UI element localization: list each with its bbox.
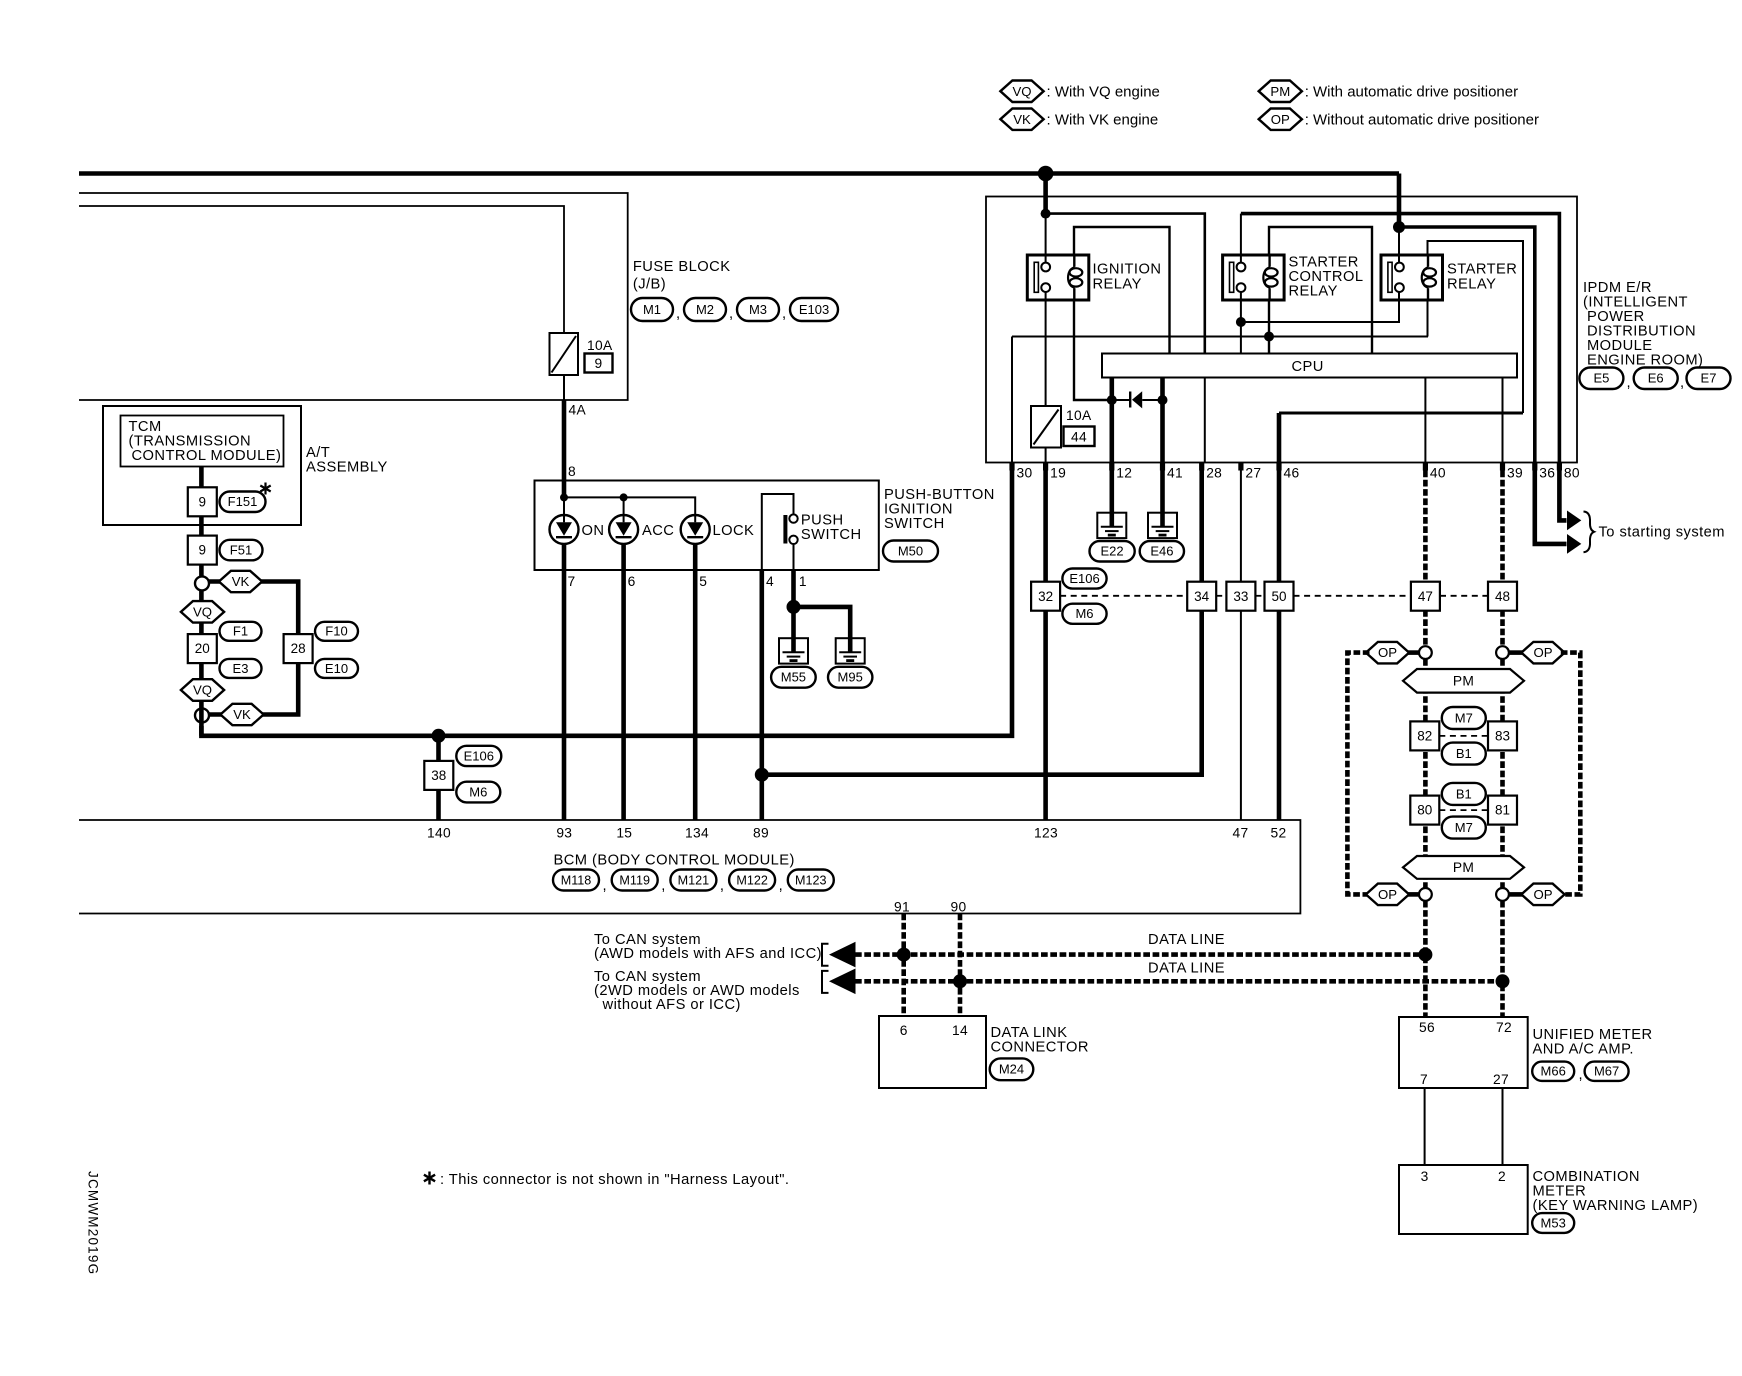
svg-text:83: 83 [1495,729,1510,744]
arrow to CAN system lower [829,969,856,995]
svg-text:81: 81 [1495,803,1510,818]
wire CPU to pin 28 (inside) [1204,378,1206,463]
svg-text:33: 33 [1233,589,1248,604]
arrow to starting system (pin 80) [1567,511,1581,531]
wire TCM main branch down [199,590,204,735]
starter relay [1381,255,1443,300]
svg-text:VK: VK [1013,112,1031,127]
dashed link 80-81 [1439,809,1488,811]
svg-text:VQ: VQ [193,683,212,698]
wire UM 27 to CM 2 [1502,1088,1504,1165]
wire pin 46 link [1279,412,1523,415]
pin 34 connector [1187,582,1216,611]
svg-text:ACC: ACC [642,523,674,539]
svg-text:50: 50 [1271,589,1286,604]
svg-text:To starting system: To starting system [1599,525,1725,541]
A/T assembly outer box [103,406,301,525]
svg-text:82: 82 [1417,729,1432,744]
svg-text:32: 32 [1038,589,1053,604]
junction ignition relay feed node [1041,209,1051,219]
CAN wire right mid [1500,659,1505,888]
connector M118 [553,870,599,891]
junction 90/lower data line [953,974,967,988]
connector M7 (row1) [1442,707,1486,729]
wire pin 46 to BCM 52 [1277,471,1282,821]
svg-text:,: , [729,306,734,322]
CAN wire to unified meter 72 [1500,901,1505,1017]
svg-text:VK: VK [233,707,251,722]
svg-text:M7: M7 [1455,820,1473,835]
svg-text:OP: OP [1378,887,1397,902]
connector M6 (left) [456,782,500,803]
IPDM pin 80 stub [1557,463,1562,471]
wire starter coil bottom [1427,300,1429,337]
stub node to OP bottom-left [1406,892,1419,897]
wire SC contact to starter contact [1241,292,1399,322]
svg-text:F1: F1 [233,624,248,639]
svg-text:M6: M6 [1075,606,1093,621]
svg-text:F51: F51 [230,542,252,557]
wire ON LED stub [563,497,565,515]
connector F1 [220,622,262,641]
CAN wire pin 39 down [1500,471,1505,647]
svg-text:1: 1 [799,574,807,589]
svg-text:E5: E5 [1593,371,1609,386]
wire ON LED to pin 7 [562,544,567,820]
connector F51 [220,540,263,561]
svg-text:41: 41 [1167,466,1183,481]
connector M121 [670,870,716,891]
dashed connector line 33-50 [1255,595,1264,597]
connector E106 (left) [456,746,501,766]
wire pin 1 to ground M55 [791,570,796,652]
svg-text:M1: M1 [643,302,661,317]
BCM box [79,820,1300,914]
connector M67 [1585,1062,1629,1081]
wire pin 30 line [1012,336,1428,338]
pin 20 connector [188,634,217,663]
connector M122 [729,870,775,891]
svg-text:,: , [782,306,787,322]
svg-text:40: 40 [1430,466,1446,481]
push-button ignition switch box M50 [535,481,879,571]
wire push switch to pin 1 [793,544,795,570]
svg-text:14: 14 [952,1023,968,1038]
svg-text:E6: E6 [1648,371,1664,386]
legend symbol OP [1259,109,1302,130]
CAN wire left mid [1423,659,1428,888]
svg-text:30: 30 [1017,466,1033,481]
svg-text:OP: OP [1271,112,1290,127]
junction diode left [1107,395,1117,405]
svg-text:,: , [1579,1067,1584,1083]
svg-text:M3: M3 [749,302,767,317]
svg-text:RELAY: RELAY [1093,277,1142,293]
indicator LED ACC [609,515,638,544]
data line lower [855,979,1503,984]
svg-text:ASSEMBLY: ASSEMBLY [306,460,388,476]
wire junction down to 38 [436,736,441,820]
node circle upper (VK split) [195,576,209,590]
svg-text:80: 80 [1417,803,1432,818]
svg-text:: Without automatic drive posi: : Without automatic drive positioner [1305,111,1539,128]
wire CPU to pin 41 [1160,378,1165,463]
option hexagon OP bottom-right [1521,884,1564,906]
svg-text:19: 19 [1050,466,1066,481]
IPDM pin 30 stub [1009,463,1014,471]
svg-text:,: , [720,878,725,894]
ground connector E46 [1140,541,1184,562]
stub node to OP bottom-right [1509,892,1525,897]
connector E106 (right) [1062,569,1106,589]
wire SC coil loop to CPU [1269,227,1372,354]
svg-text:,: , [661,878,666,894]
svg-text:VK: VK [232,574,250,589]
svg-text:M6: M6 [469,785,487,800]
fuse 10A no.44 [1031,406,1061,448]
note asterisk footnote [424,1172,435,1185]
connector M2 [684,298,726,321]
svg-text:,: , [1627,375,1632,391]
svg-text:28: 28 [1206,466,1222,481]
svg-text:F10: F10 [325,624,347,639]
connector E10 [315,659,358,678]
svg-text:without AFS or ICC): without AFS or ICC) [598,997,741,1013]
svg-text:M118: M118 [561,873,592,887]
svg-text:140: 140 [427,826,451,841]
PM banner top [1403,669,1524,693]
junction pin4 / IPDM28 branch [755,768,769,782]
svg-text:52: 52 [1271,826,1287,841]
pin 81 connector [1488,796,1517,825]
wire pin 12 to ground E22 [1110,471,1115,527]
svg-text:M95: M95 [838,670,863,685]
junction starter relay feed [1393,221,1405,233]
fuse 10A no.9 [550,333,579,375]
pin 50 connector [1265,582,1294,611]
svg-text:M7: M7 [1455,710,1473,725]
svg-text:: With VK engine: : With VK engine [1047,111,1159,128]
svg-text:9: 9 [199,494,207,509]
IPDM pin 12 stub [1109,463,1114,471]
svg-text:OP: OP [1378,645,1397,660]
svg-text:E10: E10 [325,661,348,676]
CAN OP loop right [1561,653,1581,895]
svg-text:: This connector is not shown: : This connector is not shown in "Harnes… [440,1172,789,1188]
svg-text:DATA LINE: DATA LINE [1148,961,1225,977]
dashed link 82-83 [1439,735,1488,737]
svg-text:OP: OP [1533,887,1552,902]
connector M7 (row2) [1442,817,1486,839]
combination meter box M53 [1399,1165,1528,1234]
svg-text:BCM (BODY CONTROL MODULE): BCM (BODY CONTROL MODULE) [554,853,795,869]
ground symbol M55 [779,638,808,663]
svg-text:(J/B): (J/B) [633,277,666,293]
wire node to CPU (pin28 top line) [1046,214,1205,354]
connector M66 [1532,1062,1574,1081]
svg-text:ON: ON [582,523,605,539]
wire ACC LED stub [623,497,625,515]
wire F151 to F51 [199,516,204,535]
fuse number box 44 [1064,427,1095,447]
wire pin 4 riser [762,494,794,570]
svg-text:M2: M2 [696,302,714,317]
svg-text:34: 34 [1194,589,1210,604]
arrow to CAN system upper [829,942,856,968]
IPDM pin 28 stub [1199,463,1204,471]
ignition relay [1027,255,1089,300]
svg-text:12: 12 [1116,466,1132,481]
ground connector M95 [828,667,872,688]
svg-text:3: 3 [1421,1169,1429,1184]
fuse number box 9 [585,354,613,373]
connector M53 [1532,1213,1574,1233]
wire fuse 44 to pin 19 [1045,448,1047,463]
svg-text:27: 27 [1493,1072,1509,1087]
arrow to starting system (pin 36) [1567,534,1581,554]
data link connector box M24 [879,1016,986,1088]
node circle CAN-R top [1496,646,1509,659]
junction CAN-R/lower data line [1496,974,1510,988]
junction ACC LED tap [620,493,628,501]
option hexagon VK upper [219,571,262,592]
dashed connector line 47-48 [1440,595,1488,597]
wire node to pin 36 [1399,227,1535,463]
svg-text:VQ: VQ [193,605,212,620]
wire pin 80 line [1241,214,1560,463]
connector M1 [631,298,673,321]
svg-text:36: 36 [1539,466,1555,481]
svg-text:PM: PM [1453,860,1474,875]
pin 47 connector [1411,582,1440,611]
legend symbol PM [1259,81,1302,103]
svg-text:10A: 10A [1066,408,1092,423]
legend symbol VK [1000,109,1043,130]
IPDM pin 39 stub [1500,463,1505,471]
pin 82 connector [1410,721,1439,750]
svg-text:(AWD models with AFS and ICC): (AWD models with AFS and ICC) [594,946,822,962]
svg-text:38: 38 [431,768,446,783]
wire ignition contact to fuse 44 [1045,292,1047,406]
wire LOCK LED to pin 5 [693,544,698,820]
svg-text:M121: M121 [678,873,710,887]
svg-text:M24: M24 [999,1062,1024,1077]
CAN OP loop left [1347,653,1369,895]
svg-text:F151: F151 [228,494,258,509]
svg-text:4: 4 [766,574,774,589]
indicator LED ON [550,515,579,544]
svg-text:M53: M53 [1541,1215,1566,1230]
connector M3 [737,298,779,321]
svg-text:134: 134 [685,826,709,841]
connector E7 [1687,368,1731,390]
IPDM pin 27 stub [1238,463,1243,471]
svg-text:CPU: CPU [1292,359,1324,375]
junction pin8 / ON LED [560,493,568,501]
junction ground split [787,600,801,614]
IPDM E/R box [986,197,1577,463]
CAN wire BCM 90 down [958,914,963,1017]
IPDM pin 46 stub [1276,463,1281,471]
dashed connector line 50-47 [1294,595,1411,597]
svg-text:M50: M50 [898,543,923,558]
svg-text:M66: M66 [1541,1064,1566,1079]
junction CAN-L/upper data line [1418,948,1432,962]
pin 9 of F51 [188,536,217,565]
wire VK branch right loop [209,582,298,715]
connector M24 [990,1058,1034,1080]
pin 80 connector (CAN) [1410,796,1439,825]
svg-text:B1: B1 [1456,786,1472,801]
svg-text:: With VQ engine: : With VQ engine [1047,83,1160,100]
svg-text:RELAY: RELAY [1289,284,1338,300]
svg-text:PM: PM [1453,674,1474,689]
wire pin 41 to ground E46 [1160,471,1165,527]
svg-text:46: 46 [1284,466,1300,481]
IPDM pin 41 stub [1160,463,1165,471]
push switch symbol [783,514,797,544]
ground connector E22 [1090,541,1135,562]
svg-text:RELAY: RELAY [1447,277,1496,293]
node circle CAN-L bottom [1419,888,1432,901]
ground symbol E22 [1097,513,1126,538]
wire pin 36 to starting system [1535,471,1567,544]
svg-text:CONNECTOR: CONNECTOR [991,1040,1089,1056]
svg-text:SWITCH: SWITCH [801,527,862,543]
svg-text:M123: M123 [795,873,827,887]
svg-text:56: 56 [1419,1020,1435,1035]
node circle CAN-L top [1419,646,1432,659]
CAN wire pin 40 down [1423,471,1428,647]
pin 38 connector [424,761,453,790]
IPDM pin 40 stub [1423,463,1428,471]
CPU box [1102,354,1517,378]
svg-text:E106: E106 [464,748,494,763]
wire pin 30 drop [1011,337,1013,463]
svg-text:44: 44 [1071,430,1087,445]
wire SC relay contact top [1240,214,1242,263]
wire bus drop into IPDM at x1399 [1397,174,1402,228]
svg-text:AND A/C AMP.: AND A/C AMP. [1533,1042,1634,1058]
wire 4A down to push-button switch [562,400,567,497]
wire SC contact to CPU [1240,292,1242,354]
svg-text:6: 6 [628,574,636,589]
svg-text:20: 20 [195,641,210,656]
asterisk on F151 [260,483,270,495]
wire pin 19 to BCM 123 [1043,471,1048,821]
svg-text:DATA LINE: DATA LINE [1148,932,1225,948]
pin 28 connector [284,634,313,663]
connector F10 [315,622,358,641]
svg-text:OP: OP [1533,645,1552,660]
svg-text:,: , [676,306,681,322]
svg-text:10A: 10A [587,338,613,353]
pin 33 connector [1226,582,1255,611]
indicator LED LOCK [681,515,710,544]
connector E5 [1579,368,1623,390]
option hexagon OP bottom-left [1366,884,1409,906]
svg-text:4A: 4A [569,403,587,418]
PM banner bottom [1403,856,1524,879]
wire pin 4 to BCM pin 89 [759,570,764,820]
connector E6 [1634,368,1678,390]
wire CPU to pin 12 [1110,378,1115,463]
svg-text:15: 15 [616,826,632,841]
pin 9 of F151 [188,487,217,516]
wire starter contact top [1398,227,1400,263]
unified meter and A/C amp box [1399,1017,1528,1088]
svg-text:M119: M119 [619,873,650,887]
svg-text:89: 89 [753,826,769,841]
junction SC contact / starter contact link [1236,317,1246,327]
option hexagon OP top-right [1521,642,1564,664]
svg-text:123: 123 [1034,826,1058,841]
ground symbol E46 [1148,513,1177,538]
wire fuse output 4A [563,375,565,400]
svg-text:E7: E7 [1701,371,1717,386]
wire TCM to IPDM pin 30 [201,463,1012,736]
junction bus / IPDM feed [1038,166,1054,182]
svg-text:PUSH: PUSH [801,513,844,529]
wire ignition coil bottom to diode node [1074,300,1112,400]
wire TCM pin 9 to F151 [199,467,204,488]
svg-text:72: 72 [1496,1020,1512,1035]
svg-text:M55: M55 [781,670,806,685]
svg-text:28: 28 [291,641,306,656]
svg-text:E103: E103 [799,302,829,317]
wire CPU to pin 39 [1502,378,1504,463]
pin 83 connector [1488,721,1517,750]
connector M50 [883,541,938,562]
svg-text:91: 91 [894,900,910,915]
connector M123 [788,870,834,891]
wire CPU to pin 40 [1424,378,1426,463]
svg-text:IGNITION: IGNITION [1093,262,1162,278]
junction TCM wire / E106 branch [432,729,446,743]
svg-text:93: 93 [556,826,572,841]
svg-text:SWITCH: SWITCH [884,516,945,532]
bracket upper [822,944,829,966]
stub node to OP top-right [1509,650,1525,655]
svg-text:,: , [603,878,608,894]
svg-text:2: 2 [1498,1169,1506,1184]
svg-text:VQ: VQ [1012,84,1031,99]
svg-text:(KEY WARNING LAMP): (KEY WARNING LAMP) [1533,1198,1699,1214]
svg-text:STARTER: STARTER [1447,262,1517,278]
wire ACC LED to pin 6 [621,544,626,820]
option hexagon VK lower [220,704,263,725]
svg-text:FUSE BLOCK: FUSE BLOCK [633,259,731,275]
TCM box [121,416,284,467]
svg-text:39: 39 [1507,466,1523,481]
data line upper [855,952,1425,957]
svg-text:6: 6 [900,1023,908,1038]
stub node to OP top-left [1406,650,1419,655]
svg-text:M122: M122 [736,873,768,887]
fuse block (J/B) outline [79,193,628,400]
wire starter coil loop [1428,241,1524,413]
svg-text:JCMWM2019G: JCMWM2019G [86,1171,101,1275]
svg-text:47: 47 [1418,589,1433,604]
wire pin 46 drop [1277,413,1282,463]
dashed connector line 34-33 [1216,595,1226,597]
wire LED feed rail [564,497,695,515]
svg-text:: With automatic drive positio: : With automatic drive positioner [1305,83,1518,100]
CAN wire BCM 91 down [901,914,906,1017]
wire pin 27 to BCM 47 [1240,471,1242,821]
bracket lower [822,971,829,993]
svg-text:E22: E22 [1101,544,1124,559]
